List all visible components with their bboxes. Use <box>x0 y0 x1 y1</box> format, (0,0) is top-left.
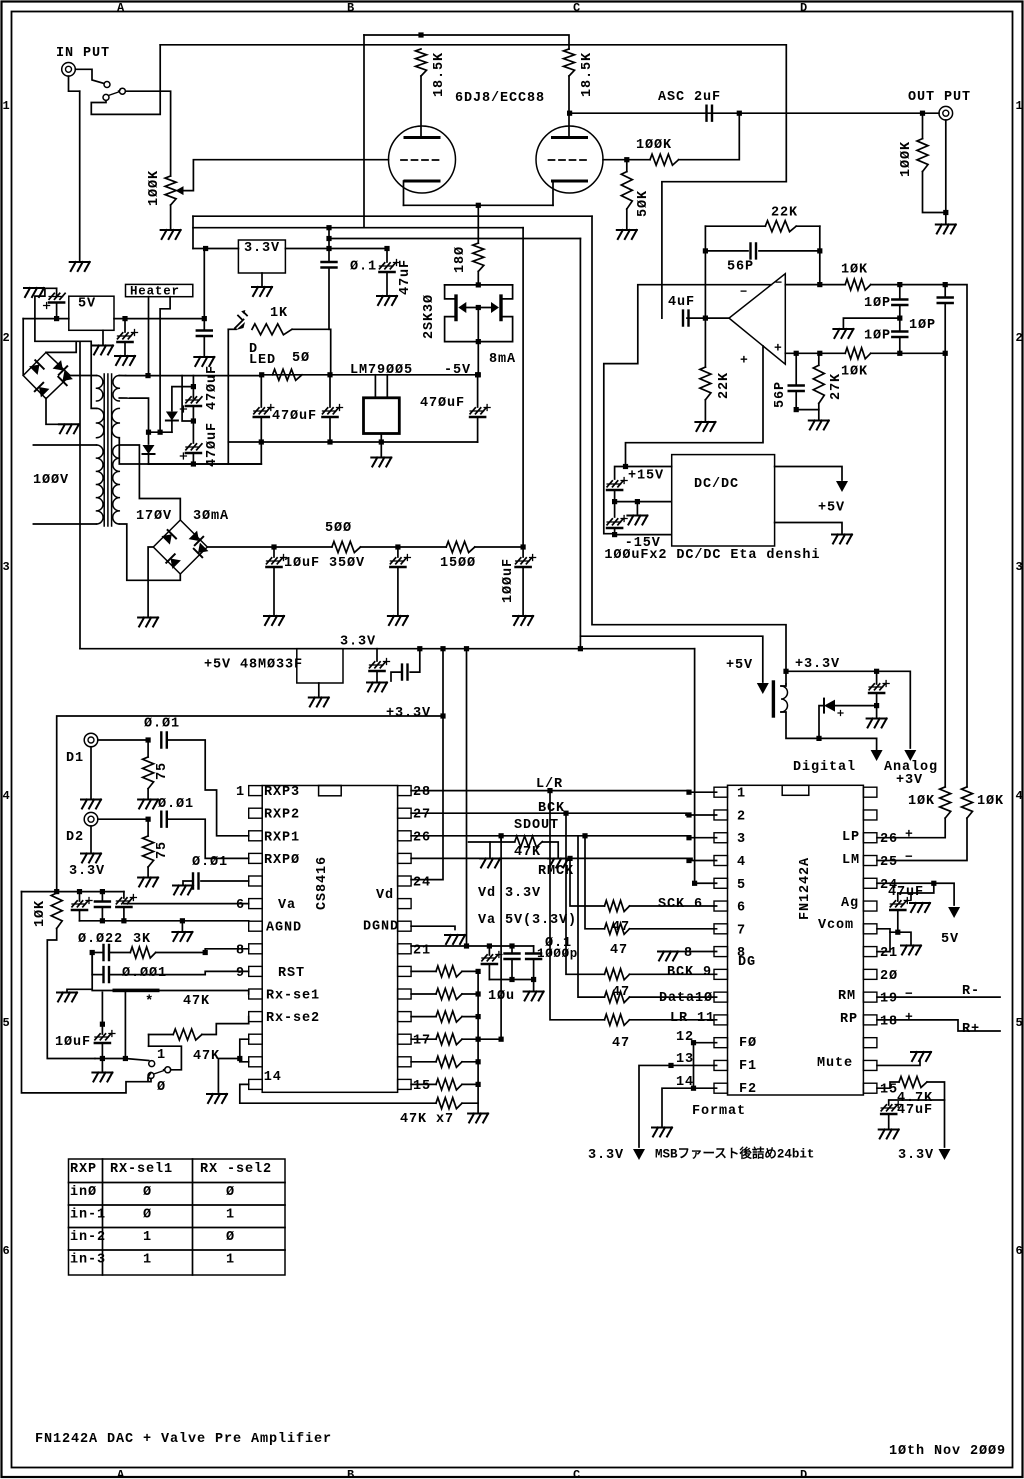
FN1242A left pin 7 <box>714 924 728 934</box>
svg-text:RXP: RXP <box>70 1162 97 1177</box>
ground 100uF <box>513 616 533 625</box>
capacitor 470uF a <box>260 375 262 407</box>
svg-text:18: 18 <box>880 1014 898 1029</box>
svg-text:R+: R+ <box>962 1022 980 1037</box>
wire cap ground stem <box>876 706 878 717</box>
wire cathode rail <box>404 204 554 206</box>
ground Mute <box>911 1052 931 1061</box>
transformer winding mid-left <box>97 408 104 437</box>
svg-text:4: 4 <box>3 789 10 803</box>
wire Va left loop <box>22 892 152 1093</box>
svg-text:Vd: Vd <box>376 888 394 903</box>
svg-text:1: 1 <box>226 1207 235 1222</box>
ground 3.3V reg <box>252 287 272 296</box>
wire 3.3V reg output <box>285 248 387 250</box>
svg-text:47ØuF: 47ØuF <box>420 396 465 411</box>
svg-text:+3.3V: +3.3V <box>386 706 431 721</box>
svg-text:LP: LP <box>842 830 860 845</box>
wire to 100K load <box>922 113 924 138</box>
svg-text:Rx-se1: Rx-se1 <box>266 988 320 1003</box>
FN1242A left pin 9 <box>714 969 728 979</box>
wire 3.3V to FN pin5 <box>695 649 717 884</box>
op-amp U1 <box>729 274 785 365</box>
wire 47K left ground <box>469 841 502 843</box>
resistor 47K pull 6 <box>411 1083 436 1085</box>
resistor 50K grid leak <box>621 172 632 209</box>
capacitor 0.1 va <box>511 946 513 954</box>
svg-text:+5V 48MØ33F: +5V 48MØ33F <box>204 657 303 672</box>
wire 47 pin7 <box>585 836 605 929</box>
resistor 10K LP <box>940 787 951 818</box>
IC U2 CS8416 body <box>262 786 397 1093</box>
junction right plate to output cap <box>567 111 572 116</box>
capacitor 0.01 pin5 <box>201 880 249 882</box>
svg-text:*: * <box>145 993 153 1009</box>
wire B+ top rail <box>364 35 569 49</box>
wire bus row y=227.7 <box>193 227 523 229</box>
svg-text:RX-sel1: RX-sel1 <box>110 1162 173 1177</box>
wire 47 sck <box>605 901 630 912</box>
wire plate to output <box>570 112 939 114</box>
junction output ground <box>943 210 948 215</box>
svg-text:F2: F2 <box>739 1082 757 1097</box>
ground 75 D1 <box>138 800 158 809</box>
svg-text:BCK: BCK <box>538 801 565 816</box>
regulator 5V module <box>69 296 114 330</box>
resistor 18.5K left plate load <box>416 49 427 76</box>
svg-text:DC/DC: DC/DC <box>694 477 739 492</box>
wire RMCK row <box>411 858 716 860</box>
wire digital arrow stem <box>876 738 878 750</box>
wire pin12 to pin14 tie <box>694 1043 717 1089</box>
svg-text:MSBファースト後詰め24bit: MSBファースト後詰め24bit <box>655 1145 814 1161</box>
FN1242A right pin 16 <box>863 1060 877 1070</box>
capacitor 47uF electrolytic <box>386 249 388 263</box>
svg-text:RXP3: RXP3 <box>264 785 300 800</box>
wire pin24 5V node <box>877 882 934 884</box>
junction +3.3V node <box>783 669 788 674</box>
svg-text:−: − <box>905 850 913 865</box>
wire Va pin6 <box>124 903 249 905</box>
junction filter mid <box>395 544 400 549</box>
wire bridge2 minus to ground <box>148 547 153 616</box>
svg-text:5ØK: 5ØK <box>636 190 651 217</box>
transformer winding heater right upper <box>113 376 119 402</box>
switch RX select S2 <box>149 1061 155 1067</box>
wire to 5V arrow <box>934 883 954 905</box>
wire output node vertical <box>704 226 706 318</box>
svg-text:1ØØØp: 1ØØØp <box>537 947 578 961</box>
svg-text:Ø.Ø22: Ø.Ø22 <box>78 932 123 947</box>
svg-text:3: 3 <box>1016 560 1023 574</box>
svg-text:+15V: +15V <box>628 468 664 483</box>
wire heater rail to LED row <box>126 375 262 377</box>
wire Va top rail <box>22 891 124 893</box>
wire pin14 to ground <box>662 1088 717 1126</box>
pot wiper arrow <box>176 186 184 195</box>
ground 5V bypass cap <box>194 357 214 366</box>
junction 0.022 left <box>90 950 95 955</box>
svg-text:1Øth Nov 2ØØ9: 1Øth Nov 2ØØ9 <box>889 1444 1006 1459</box>
svg-text:4: 4 <box>737 855 746 870</box>
junction 10K top <box>54 889 59 894</box>
wire signal feedback top run <box>160 45 786 318</box>
resistor 180 cathode <box>473 243 484 271</box>
FN1242A right pin 23 <box>863 901 877 911</box>
svg-text:47: 47 <box>610 943 628 958</box>
svg-text:1ØØV: 1ØØV <box>33 473 69 488</box>
arrow +5V out <box>836 481 848 492</box>
wire inverting node vertical <box>819 226 821 284</box>
capacitor 10uF 350V <box>273 547 275 557</box>
wire rail B+ x=523 <box>522 228 524 547</box>
FN1242A left pin 3 <box>714 833 728 843</box>
junction cathode rail <box>476 203 481 208</box>
resistor 47K pull 7 <box>436 1098 462 1109</box>
wire bridge1 bottom to ground <box>46 398 69 424</box>
ground output jack <box>936 225 956 234</box>
arrow +5V digital <box>757 683 769 694</box>
junction -5V rail <box>476 372 481 377</box>
svg-text:1: 1 <box>1016 99 1023 113</box>
wire 3K to pin8 <box>156 949 249 953</box>
svg-text:Digital: Digital <box>793 760 856 775</box>
capacitor 470uF heater 1 <box>191 384 196 389</box>
wire to 100K grid stopper <box>679 113 740 160</box>
svg-text:Ag: Ag <box>841 896 859 911</box>
svg-text:D: D <box>800 1468 807 1479</box>
svg-text:−: − <box>905 987 913 1002</box>
svg-text:1: 1 <box>3 99 10 113</box>
wire 10K bottom <box>47 928 95 1058</box>
svg-text:8: 8 <box>737 946 746 961</box>
resistor 27K <box>813 365 824 403</box>
capacitor +3.3V electrolytic <box>874 669 879 674</box>
wire va caps bottom rail <box>489 979 533 981</box>
svg-text:17ØV: 17ØV <box>136 509 172 524</box>
junction sdout rail bottom <box>499 1037 504 1042</box>
junction 56P 27K <box>794 407 799 412</box>
wire right cathode leg <box>552 181 554 205</box>
wire 47 lr11 <box>550 791 605 1020</box>
svg-text:Ø: Ø <box>226 1230 235 1245</box>
svg-text:RXP1: RXP1 <box>264 830 300 845</box>
wire AGND ground stem <box>181 921 183 931</box>
svg-text:5Ø: 5Ø <box>292 351 310 366</box>
wire noninverting input row <box>785 352 845 354</box>
ground 47uF mute <box>879 1130 899 1139</box>
svg-text:21: 21 <box>880 946 898 961</box>
junction D1 75ohm <box>146 737 151 742</box>
capacitor 470uF b <box>329 375 331 407</box>
wire wiper to left tube grid <box>184 160 389 191</box>
resistor 1K LED <box>252 324 292 335</box>
junction 5V input <box>54 316 59 321</box>
svg-text:B: B <box>347 1 354 15</box>
capacitor 10u electrolytic <box>488 946 490 955</box>
svg-text:-5V: -5V <box>444 363 471 378</box>
wire heater winding lower lead <box>119 397 130 399</box>
svg-text:B: B <box>347 1468 354 1479</box>
svg-text:5: 5 <box>3 1016 10 1030</box>
svg-text:1: 1 <box>737 787 746 802</box>
svg-text:47ØuF: 47ØuF <box>205 422 220 467</box>
wire left node chain to ground <box>67 953 92 992</box>
capacitor 100uF minus rail <box>614 502 616 517</box>
wire switch common to volume pot <box>125 91 170 176</box>
ground vcom b <box>901 946 921 955</box>
svg-text:+: + <box>905 827 913 842</box>
FN1242A right pin 24 <box>863 878 877 888</box>
potentiometer 100K volume <box>165 176 176 205</box>
svg-text:27K: 27K <box>829 373 844 400</box>
junction heater stub <box>145 373 150 378</box>
rectifier bridge B1 <box>23 352 70 398</box>
svg-text:6: 6 <box>3 1244 10 1258</box>
svg-text:CS8416: CS8416 <box>315 856 330 910</box>
capacitor 10P across <box>944 285 946 298</box>
wire 10K LM to pin25 <box>877 818 967 860</box>
Heater label box <box>126 284 193 296</box>
CS8416 left pin 8 <box>249 944 263 954</box>
wire 47 bck9 <box>566 813 605 974</box>
wire cathode to 180 <box>477 205 479 243</box>
svg-text:R-: R- <box>962 984 980 999</box>
CS8416 right pin 28 <box>398 786 412 796</box>
svg-text:+5V: +5V <box>726 658 753 673</box>
wire heater winding top lead <box>119 375 125 377</box>
CS8416 left pin 9 <box>249 966 263 976</box>
capacitor 5V out electrolytic <box>124 319 126 332</box>
svg-text:7: 7 <box>737 923 746 938</box>
ground DGND <box>445 935 465 944</box>
wire sdout vertical <box>500 836 502 1039</box>
svg-text:−: − <box>740 285 747 299</box>
ground DC/DC out <box>832 535 852 544</box>
CS8416 left pin 3 <box>249 831 263 841</box>
wire D1 shield <box>90 747 92 798</box>
IC U3 FN1242A body <box>728 785 864 1095</box>
svg-text:9: 9 <box>236 966 245 981</box>
capacitor 3.3V rail electrolytic <box>376 649 378 661</box>
wire ground to filter cap <box>42 287 57 289</box>
svg-text:26: 26 <box>880 832 898 847</box>
CS8416 left pin 13 <box>249 1057 263 1067</box>
svg-text:3K: 3K <box>133 932 151 947</box>
svg-text:Data1Ø: Data1Ø <box>659 991 713 1006</box>
svg-text:in-3: in-3 <box>70 1252 106 1267</box>
regulator LM79005 <box>364 398 400 434</box>
rectifier bridge B2 170V <box>153 520 207 574</box>
wire right grid to resistors <box>603 159 627 161</box>
capacitor Va b <box>101 892 103 902</box>
CS8416 left pin 14 <box>249 1079 263 1089</box>
wire heater left stub <box>148 297 150 376</box>
CS8416 right pin 19 <box>398 989 412 999</box>
wire ground loop to bus <box>35 288 97 408</box>
svg-text:3.3V: 3.3V <box>588 1148 624 1163</box>
junction B+ left <box>418 32 423 37</box>
resistor 4.7K row <box>877 1082 899 1088</box>
svg-text:Ø: Ø <box>143 1207 152 1222</box>
svg-text:OUT PUT: OUT PUT <box>908 90 971 105</box>
wire D2 to cap <box>98 818 148 820</box>
svg-text:1ØuF: 1ØuF <box>55 1035 91 1050</box>
svg-text:2: 2 <box>737 809 746 824</box>
junction analog 3.3V feed <box>464 646 469 651</box>
wire switch lower to loop <box>148 1079 151 1082</box>
wire right mid winding bottom <box>119 438 148 464</box>
svg-text:+3V: +3V <box>896 773 923 788</box>
ground 5V reg <box>93 346 113 355</box>
svg-text:19: 19 <box>880 992 898 1007</box>
FN1242A left pin 5 <box>714 878 728 888</box>
wire winding to doubler <box>130 398 149 432</box>
CS8416 right pin 18 <box>398 1012 412 1022</box>
wire D1 to cap <box>98 739 148 741</box>
FN1242A left pin 14 <box>714 1083 728 1093</box>
ground 48M033F <box>309 698 329 707</box>
capacitor 10P upper <box>899 285 901 300</box>
resistor 3K <box>130 947 155 958</box>
wire jack shield <box>69 76 80 91</box>
ground 0.022 node <box>57 993 77 1002</box>
ground AC entry <box>24 288 44 297</box>
junction 470uF b top <box>327 372 332 377</box>
svg-text:6: 6 <box>236 898 245 913</box>
svg-text:RST: RST <box>278 966 305 981</box>
FN1242A right pin 25 <box>863 856 877 866</box>
capacitor 5V rail bypass <box>203 319 205 331</box>
capacitor 4uF op-amp coupling <box>683 311 689 326</box>
arrow 3.3V format <box>633 1149 645 1160</box>
resistor 47K pull 5 <box>411 1061 436 1063</box>
wire Rx-se1 row <box>91 953 93 975</box>
wire common ground stem <box>636 502 638 514</box>
input select switch S1 <box>104 82 110 88</box>
ground 47K sdout right <box>548 859 568 868</box>
svg-text:3ØmA: 3ØmA <box>193 509 229 524</box>
svg-text:4: 4 <box>1016 789 1023 803</box>
junction +15V <box>623 464 628 469</box>
wire 50K to ground <box>626 209 628 229</box>
svg-text:1ØØK: 1ØØK <box>147 170 162 206</box>
IN PUT RCA jack J1 <box>62 63 76 77</box>
svg-text:24: 24 <box>413 875 431 890</box>
wire shield down to ground <box>79 91 81 262</box>
junction -15V <box>612 532 617 537</box>
svg-text:Vcom: Vcom <box>818 918 854 933</box>
svg-text:1: 1 <box>157 1048 166 1063</box>
resistor 100K output load <box>917 139 928 172</box>
transformer winding upper-left <box>97 376 103 402</box>
CS8416 left pin 2 <box>249 808 263 818</box>
svg-text:LR 11: LR 11 <box>670 1011 715 1026</box>
svg-text:3: 3 <box>3 560 10 574</box>
svg-text:8mA: 8mA <box>489 352 516 367</box>
CS8416 right pin 21 <box>398 944 412 954</box>
ground chassis near input <box>70 262 90 271</box>
wire 180 to 2SK30 <box>477 271 479 285</box>
wire diode to cap <box>835 705 877 707</box>
svg-text:14: 14 <box>264 1070 282 1085</box>
wire 5V input rail <box>23 318 69 320</box>
svg-text:1ØP: 1ØP <box>864 296 891 311</box>
svg-text:47K: 47K <box>193 1049 220 1064</box>
svg-text:47K x7: 47K x7 <box>400 1112 454 1127</box>
triode V1a left tube <box>389 126 456 193</box>
wire 100K to jack shield <box>923 172 946 213</box>
svg-text:1ØØK: 1ØØK <box>636 138 672 153</box>
diode heater doubler lower <box>148 432 150 444</box>
capacitor 56P noninverting <box>795 353 797 385</box>
wire LM79005 pin2 <box>386 375 388 398</box>
svg-text:5ØØ: 5ØØ <box>325 521 352 536</box>
ground AGND <box>172 932 192 941</box>
svg-text:RMCK: RMCK <box>538 864 574 879</box>
junction 3.3V reg input <box>203 246 208 251</box>
CS8416 right pin 24 <box>398 876 412 886</box>
ground 47K sdout left <box>480 859 500 868</box>
svg-text:RP: RP <box>840 1012 858 1027</box>
svg-text:SCK 6: SCK 6 <box>658 897 703 912</box>
junction 5V out cap <box>122 316 127 321</box>
FN1242A right pin 28 <box>863 787 877 797</box>
wire D2 shield <box>90 826 92 852</box>
wire 5V output rail <box>114 318 204 320</box>
junction 47uF node <box>384 246 389 251</box>
wire rail +3.3V x=592 <box>592 216 786 671</box>
wire Va 5V row <box>411 945 533 947</box>
svg-text:4uF: 4uF <box>668 295 695 310</box>
wire 10uF to RST row <box>101 992 103 1024</box>
svg-text:56P: 56P <box>727 259 754 274</box>
wire 100V primary leads <box>33 444 96 446</box>
wire op-amp V+ to +15V <box>626 346 764 467</box>
svg-text:Va: Va <box>278 898 296 913</box>
transistor 2SK30 dual JFET current source <box>445 284 513 286</box>
svg-text:5V: 5V <box>78 296 96 311</box>
svg-text:47: 47 <box>612 920 630 935</box>
svg-text:6: 6 <box>1016 1244 1023 1258</box>
triode V1b right tube <box>536 126 603 193</box>
svg-text:5: 5 <box>737 878 746 893</box>
wire doubler bottom row <box>149 463 262 465</box>
wire to ground 27K <box>818 410 820 419</box>
wire dc minus bus down <box>79 341 81 648</box>
ground 10uF <box>264 616 284 625</box>
svg-text:ASC 2uF: ASC 2uF <box>658 90 721 105</box>
wire L/R row <box>411 791 716 793</box>
wire 2SK30 to -5V rail <box>477 342 479 375</box>
wire 100K to grid node <box>627 159 650 161</box>
svg-text:Ø: Ø <box>157 1080 166 1095</box>
wire left plate lead <box>420 76 422 138</box>
svg-text:Heater: Heater <box>130 285 180 299</box>
svg-text:RM: RM <box>838 989 856 1004</box>
wire bus row y=216 <box>193 215 592 217</box>
capacitor 470uF c <box>475 372 480 377</box>
FN1242A left pin 10 <box>714 992 728 1002</box>
wire LM79005 gnd <box>380 434 382 457</box>
wire 3.3V reg ground <box>261 273 263 286</box>
svg-text:LED: LED <box>249 353 276 368</box>
jack D1 SPDIF input <box>84 733 98 747</box>
ground bridge2 <box>138 618 158 627</box>
svg-text:28: 28 <box>413 785 431 800</box>
wire 470uF bottom to row 464 <box>149 442 262 464</box>
svg-text:15: 15 <box>413 1079 431 1094</box>
